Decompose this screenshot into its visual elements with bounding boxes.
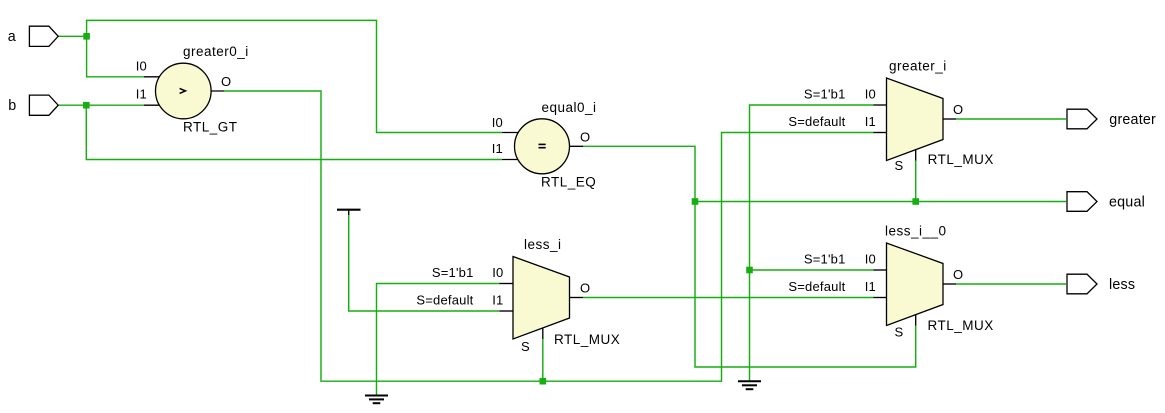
wire net eq_out: junction up to greater_i S <box>915 161 917 202</box>
pin stub less_i I1 <box>500 310 514 312</box>
svg-text:S=1'b1: S=1'b1 <box>804 87 846 102</box>
junction node a <box>83 33 90 40</box>
svg-text:O: O <box>580 129 590 144</box>
mux greater_i RTL_MUX <box>887 78 944 161</box>
svg-text:greater0_i: greater0_i <box>183 44 249 59</box>
wire net less0_out: less_i__0 O to less port <box>956 283 1066 285</box>
svg-text:I0: I0 <box>865 87 876 102</box>
svg-text:O: O <box>221 74 231 89</box>
svg-text:I1: I1 <box>865 114 876 129</box>
svg-text:less: less <box>1109 277 1135 293</box>
pin stub GT O <box>206 90 224 92</box>
wire net gt_out: junction up to less_i S <box>542 339 544 381</box>
svg-text:I1: I1 <box>865 279 876 294</box>
svg-text:S=1'b1: S=1'b1 <box>432 265 474 280</box>
svg-text:S: S <box>895 158 904 173</box>
svg-text:S: S <box>895 325 904 340</box>
svg-text:O: O <box>580 281 590 296</box>
mux less_i RTL_MUX <box>513 257 570 340</box>
pin stub greater_i I1 <box>874 132 887 134</box>
svg-text:O: O <box>953 102 963 117</box>
junction node b <box>83 102 90 109</box>
svg-text:O: O <box>953 267 963 282</box>
wire net gt_out: GT O down across bottom up to greater_i I1 <box>224 91 874 381</box>
svg-text:greater_i: greater_i <box>889 59 947 74</box>
svg-text:RTL_MUX: RTL_MUX <box>554 332 620 347</box>
wire net a: junction up over top to EQ I0 <box>87 20 502 132</box>
pin stub greater_i S <box>915 150 917 161</box>
pin stub less_i__0 O <box>943 283 956 285</box>
input port b <box>29 95 58 115</box>
svg-text:S: S <box>521 339 530 354</box>
svg-text:equal0_i: equal0_i <box>542 100 597 115</box>
wire net a: port a to junction <box>58 35 86 37</box>
comparator U equal0_i RTL_EQ <box>515 119 570 174</box>
wire net b: port b to GT I1 <box>58 104 144 106</box>
ground symbol right <box>738 381 761 389</box>
svg-text:I0: I0 <box>136 58 147 73</box>
wire net gnd1: greater_i I0 down to ground <box>750 105 874 381</box>
svg-text:RTL_EQ: RTL_EQ <box>541 175 596 190</box>
equal0_i operator glyph <box>539 144 546 147</box>
wire net b: junction down to EQ I1 <box>86 105 502 159</box>
pin stub EQ O <box>565 145 583 147</box>
input port a <box>29 26 58 46</box>
junction node eq rail at greater_i S <box>912 198 919 205</box>
svg-text:greater: greater <box>1109 112 1156 128</box>
svg-text:S=1'b1: S=1'b1 <box>804 252 846 267</box>
wire net eq_out: EQ O right and down to equal rail <box>583 146 695 201</box>
svg-text:I1: I1 <box>492 293 503 308</box>
svg-text:S=default: S=default <box>788 279 845 294</box>
wire net const T to less_i I1 <box>349 215 500 312</box>
comparator U greater0_i RTL_GT <box>156 63 212 119</box>
svg-text:S=default: S=default <box>788 114 845 129</box>
pin stub less_i I0 <box>500 283 514 285</box>
svg-text:b: b <box>8 98 16 114</box>
svg-text:I0: I0 <box>865 252 876 267</box>
svg-text:I1: I1 <box>136 87 147 102</box>
pin stub GT I1 <box>144 104 161 106</box>
const1 T symbol <box>337 210 361 215</box>
ground symbol left <box>365 396 388 404</box>
output port equal <box>1067 192 1097 212</box>
mux less_i__0 RTL_MUX <box>887 243 944 326</box>
pin stub less_i__0 I0 <box>874 269 887 271</box>
pin stub EQ I1 <box>502 159 520 161</box>
pin stub greater_i O <box>943 118 956 120</box>
svg-text:RTL_GT: RTL_GT <box>183 120 238 135</box>
pin stub GT I0 <box>144 76 161 78</box>
svg-text:less_i: less_i <box>524 237 562 252</box>
svg-text:equal: equal <box>1109 194 1145 210</box>
svg-text:RTL_MUX: RTL_MUX <box>928 318 994 333</box>
svg-text:less_i__0: less_i__0 <box>885 224 947 239</box>
output port greater <box>1067 109 1097 129</box>
pin stub less_i O <box>570 297 584 299</box>
wire net less_out: less_i O to less_i__0 I1 <box>583 297 874 299</box>
junction node gnd at less_i__0 I0 <box>746 267 753 274</box>
pin stub less_i__0 I1 <box>874 297 887 299</box>
svg-text:I0: I0 <box>492 265 503 280</box>
wire net eq_out: rail to equal port <box>695 201 1066 203</box>
wire net gnd1: junction to less_i__0 I0 <box>750 269 874 271</box>
svg-text:a: a <box>8 29 16 45</box>
pin stub greater_i I0 <box>874 104 887 106</box>
junction node eq rail left <box>692 198 699 205</box>
pin stub EQ I0 <box>502 132 520 134</box>
wire net gnd2: left ground up to less_i I0 <box>377 284 500 395</box>
svg-text:RTL_MUX: RTL_MUX <box>928 152 994 167</box>
greater0_i operator glyph <box>180 88 186 93</box>
wire net a: junction down to GT I0 <box>87 36 144 77</box>
wire net greater_out: greater_i O to greater port <box>956 118 1066 120</box>
svg-text:S=default: S=default <box>416 293 473 308</box>
junction node gt_out at less_i S <box>540 378 547 385</box>
svg-text:I1: I1 <box>492 141 503 156</box>
svg-text:I0: I0 <box>492 115 503 130</box>
output port less <box>1067 274 1097 294</box>
pin stub less_i__0 S <box>915 315 917 326</box>
pin stub less_i S <box>542 328 544 339</box>
wire net eq_out: down and right to less_i__0 S <box>695 202 916 368</box>
